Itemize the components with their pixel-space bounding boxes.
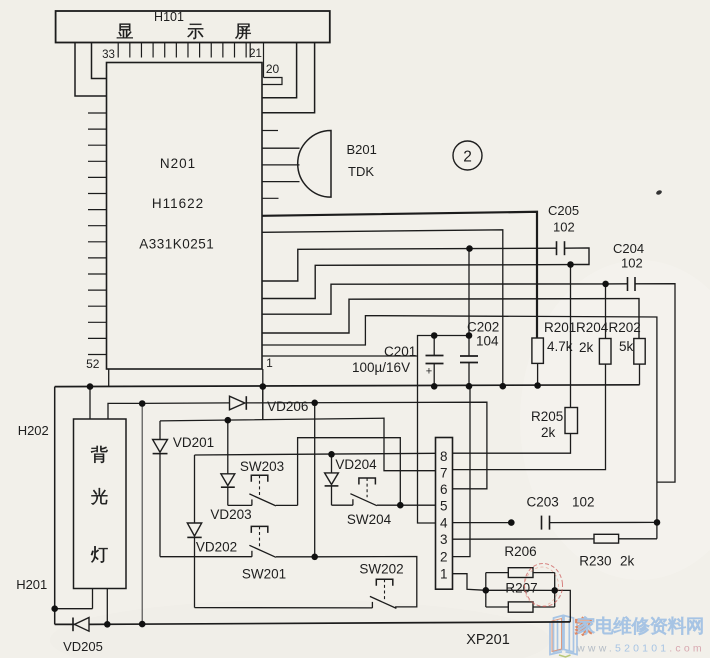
svg-text:5: 5 xyxy=(440,499,448,514)
svg-text:C205: C205 xyxy=(548,203,579,218)
svg-text:B201: B201 xyxy=(347,142,377,157)
svg-text:4: 4 xyxy=(440,515,448,530)
svg-text:H101: H101 xyxy=(154,10,184,24)
svg-text:N201: N201 xyxy=(160,156,196,171)
svg-text:2k: 2k xyxy=(620,554,635,569)
svg-text:C202: C202 xyxy=(467,320,499,335)
svg-text:SW202: SW202 xyxy=(359,562,403,577)
svg-text:VD206: VD206 xyxy=(267,399,308,414)
svg-text:5k: 5k xyxy=(619,339,634,354)
svg-text:8: 8 xyxy=(440,449,448,464)
svg-text:H11622: H11622 xyxy=(152,196,204,211)
svg-text:TDK: TDK xyxy=(348,164,374,179)
svg-text:XP201: XP201 xyxy=(466,632,510,648)
svg-text:R206: R206 xyxy=(504,544,536,559)
svg-text:VD201: VD201 xyxy=(173,435,214,450)
svg-text:C201: C201 xyxy=(384,344,416,359)
svg-text:R201: R201 xyxy=(544,320,576,335)
svg-text:VD205: VD205 xyxy=(63,639,103,654)
svg-text:R204: R204 xyxy=(576,320,609,335)
svg-text:SW204: SW204 xyxy=(347,512,392,527)
svg-text:21: 21 xyxy=(249,48,262,60)
svg-text:33: 33 xyxy=(102,49,115,61)
svg-text:2: 2 xyxy=(463,149,472,166)
svg-text:R207: R207 xyxy=(505,581,537,596)
svg-text:4.7k: 4.7k xyxy=(547,339,573,354)
svg-text:102: 102 xyxy=(572,495,595,510)
svg-text:6: 6 xyxy=(440,482,448,497)
svg-text:C204: C204 xyxy=(613,241,644,256)
svg-text:R202: R202 xyxy=(609,320,641,335)
svg-text:1: 1 xyxy=(266,356,273,370)
svg-text:7: 7 xyxy=(440,466,448,481)
svg-text:104: 104 xyxy=(476,334,499,349)
svg-text:100µ/16V: 100µ/16V xyxy=(352,360,410,375)
svg-text:R205: R205 xyxy=(531,409,563,424)
svg-text:+: + xyxy=(426,366,432,378)
svg-text:102: 102 xyxy=(621,256,643,271)
svg-text:2k: 2k xyxy=(541,425,556,440)
svg-text:H201: H201 xyxy=(16,577,47,592)
svg-text:1: 1 xyxy=(440,567,448,582)
svg-text:102: 102 xyxy=(553,220,575,235)
svg-text:52: 52 xyxy=(86,357,100,371)
svg-text:VD202: VD202 xyxy=(196,540,237,555)
svg-text:H202: H202 xyxy=(18,423,49,438)
svg-text:VD204: VD204 xyxy=(335,457,377,472)
svg-text:2k: 2k xyxy=(579,340,594,355)
svg-text:C203: C203 xyxy=(527,495,559,510)
svg-text:R230: R230 xyxy=(579,554,611,569)
svg-text:A331K0251: A331K0251 xyxy=(139,237,214,252)
svg-text:SW203: SW203 xyxy=(240,459,284,474)
svg-text:SW201: SW201 xyxy=(242,567,286,582)
svg-text:2: 2 xyxy=(440,549,448,564)
svg-text:VD203: VD203 xyxy=(210,507,251,522)
svg-text:20: 20 xyxy=(266,62,280,76)
svg-text:3: 3 xyxy=(440,532,448,547)
svg-text:www.520101.com: www.520101.com xyxy=(576,643,705,655)
